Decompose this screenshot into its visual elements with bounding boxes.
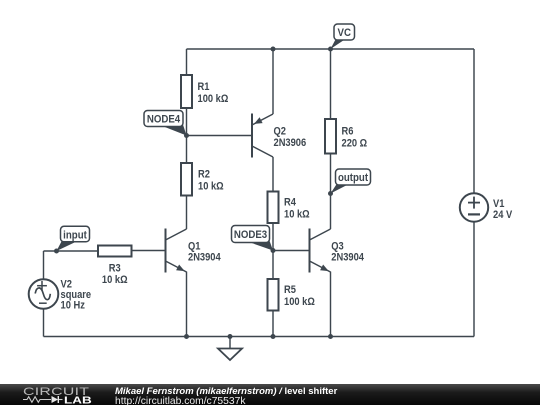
label R6 value (342, 126, 354, 138)
footer attribution text (115, 386, 337, 397)
resistor R6 (325, 119, 336, 154)
svg-text:2N3904: 2N3904 (188, 252, 221, 264)
wire Q3 emitter to ground rail (330, 272, 332, 337)
svg-text:10 kΩ: 10 kΩ (102, 275, 128, 287)
label V2 value (61, 279, 73, 291)
wire R5 bottom to ground rail (272, 311, 274, 337)
svg-text:10 Hz: 10 Hz (61, 300, 85, 312)
label Q1 value (188, 241, 201, 253)
node NODE3 flag (246, 237, 273, 251)
ground (229, 337, 231, 349)
label Q2 value (274, 126, 287, 138)
svg-text:10 kΩ: 10 kΩ (198, 181, 224, 193)
wire R1 bottom to NODE4 (186, 108, 188, 163)
svg-text:R1: R1 (198, 81, 210, 93)
svg-text:220 Ω: 220 Ω (342, 138, 368, 150)
resistor R2 (181, 163, 192, 196)
resistor R3 (98, 246, 132, 257)
wire top rail to R6 (330, 49, 332, 119)
svg-text:24 V: 24 V (493, 209, 512, 221)
wire top rail (187, 48, 475, 50)
svg-text:2N3906: 2N3906 (274, 137, 307, 149)
label R1 value (198, 81, 210, 93)
wire R2 bottom to Q1 collector (186, 196, 188, 230)
label Q3 value (331, 241, 344, 253)
wire Q1 emitter to ground rail (186, 272, 188, 337)
svg-text:input: input (63, 230, 87, 242)
svg-text:R6: R6 (342, 126, 354, 138)
wire V2 top (43, 251, 45, 279)
voltage source V2 (29, 279, 59, 309)
wire NODE3 to Q3 base (273, 250, 310, 252)
svg-text:2N3904: 2N3904 (331, 252, 364, 264)
resistor R1 (181, 75, 192, 108)
resistor R4 (268, 192, 279, 224)
node junction R5 / ground rail (271, 334, 276, 339)
wire NODE4 to Q2 base (187, 135, 253, 137)
node VC flag (331, 39, 345, 50)
svg-text:R5: R5 (284, 285, 296, 297)
svg-text:output: output (338, 173, 369, 185)
node NODE3 junction (271, 248, 276, 253)
label R4 value (284, 197, 296, 209)
footer url text (115, 396, 246, 405)
node NODE4 flag (161, 122, 187, 136)
wire R1 top to rail (186, 49, 188, 75)
wire Q2 collector to R4 (272, 157, 274, 192)
wire bottom ground rail (44, 336, 475, 338)
transistor Q2 (251, 114, 253, 158)
node junction Q2 emitter / top rail (271, 47, 276, 52)
node junction Q1 emitter / ground rail (184, 334, 189, 339)
wire top rail to Q2 emitter (272, 49, 274, 114)
svg-text:100 kΩ: 100 kΩ (198, 93, 229, 105)
CircuitLab logo (22, 384, 102, 405)
transistor Q1 (165, 229, 167, 273)
node NODE4 junction (184, 133, 189, 138)
svg-text:R4: R4 (284, 197, 296, 209)
wire R6 to Q3 collector through output node (330, 154, 332, 230)
svg-text:R3: R3 (109, 263, 121, 275)
node junction VC / R6 top (328, 47, 333, 52)
wire input node to R3 (44, 250, 99, 252)
node output junction (328, 191, 333, 196)
wire right rail lower (V1 - to ground rail) (473, 222, 475, 337)
label R2 value (198, 169, 210, 181)
svg-text:100 kΩ: 100 kΩ (284, 297, 315, 309)
node input junction (54, 249, 59, 254)
svg-text:NODE3: NODE3 (234, 230, 268, 242)
node input flag (57, 240, 77, 252)
wire Q1 base to R3 (132, 250, 166, 252)
label R3 value (109, 263, 121, 275)
svg-text:10 kΩ: 10 kΩ (284, 209, 310, 221)
label V1 value (493, 198, 505, 210)
wire R4 to R5 through NODE3 (272, 223, 274, 279)
svg-text:Q2: Q2 (274, 126, 287, 138)
label R5 value (284, 285, 296, 297)
transistor Q3 (309, 229, 311, 273)
svg-text:VC: VC (338, 28, 352, 40)
wire right rail upper (VC to V1 +) (473, 49, 475, 193)
svg-text:Q1: Q1 (188, 241, 201, 253)
node output flag (331, 184, 348, 194)
resistor R5 (268, 279, 279, 311)
svg-text:LAB: LAB (64, 394, 92, 404)
svg-text:NODE4: NODE4 (147, 114, 181, 126)
node junction Q3 emitter / ground rail (328, 334, 333, 339)
node junction ground symbol / ground rail (228, 334, 233, 339)
wire V2 bottom (43, 309, 45, 337)
voltage source V1 (460, 193, 488, 221)
svg-text:R2: R2 (198, 169, 210, 181)
svg-text:Q3: Q3 (331, 241, 344, 253)
